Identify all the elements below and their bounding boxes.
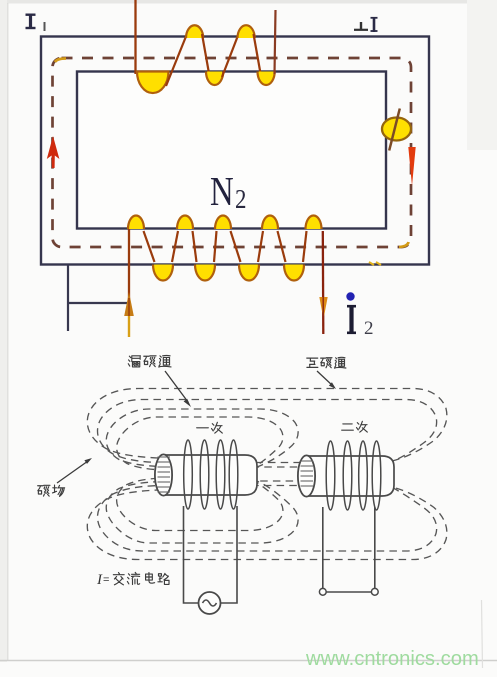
scan bottom edge xyxy=(0,660,497,662)
primary coil turn 4 xyxy=(229,440,238,509)
pointer arrow for field label xyxy=(57,461,88,483)
winding wire segment xyxy=(258,231,263,262)
primary coil turn 3 xyxy=(216,440,225,509)
secondary winding right wire xyxy=(322,231,325,334)
label primary (yi ci) xyxy=(197,422,223,433)
flux line: mutual flux outer, bottom half xyxy=(87,487,447,560)
primary coil turn 2 xyxy=(200,440,209,509)
primary winding lower loop 1 xyxy=(206,72,223,86)
flux line: mutual flux inner, top half xyxy=(98,400,437,464)
flux line: leakage flux outer, bottom half xyxy=(106,480,298,543)
secondary coil turn 4 xyxy=(372,441,381,510)
secondary winding upper loop 2 xyxy=(177,216,193,230)
wire xyxy=(222,29,241,77)
flux arrow up, left limb xyxy=(47,136,60,168)
label secondary (er ci) xyxy=(342,421,368,432)
winding wire segment xyxy=(214,231,217,262)
transformer core outer rectangle xyxy=(41,37,429,265)
svg-text:N: N xyxy=(210,170,234,215)
secondary winding lower loop 3 xyxy=(239,265,259,281)
secondary coil turn 2 xyxy=(343,441,352,510)
svg-text:www.cntronics.com: www.cntronics.com xyxy=(305,648,479,670)
svg-text:2: 2 xyxy=(364,318,374,339)
partial glyph I (top left) xyxy=(26,14,36,29)
yellow flux dash at top-left corner xyxy=(55,59,66,63)
scan right edge xyxy=(482,600,483,668)
winding wire segment xyxy=(144,231,155,262)
partial tick (top left) xyxy=(44,22,46,31)
AC source xyxy=(199,592,221,614)
label I2 with dot xyxy=(346,292,354,300)
flux line: leakage flux inner, bottom half xyxy=(117,478,283,531)
primary coil left end (ellipse) xyxy=(155,454,172,495)
external circuit lines (bottom left) xyxy=(67,265,130,332)
winding wire segment xyxy=(172,231,178,262)
yellow smudge on bottom line xyxy=(369,262,381,265)
hatch inside secondary coil mouth xyxy=(301,461,314,486)
flux line: mutual flux outer, axial segment xyxy=(200,462,350,464)
wire xyxy=(166,29,189,86)
current arrow down (secondary) xyxy=(319,297,327,319)
secondary terminal right xyxy=(371,588,378,595)
secondary terminal left xyxy=(319,588,326,595)
flux line: mutual flux inner, axial segment xyxy=(200,480,350,482)
wire xyxy=(202,34,210,79)
yellow flux dash at bottom-right corner xyxy=(399,242,409,247)
secondary winding left wire xyxy=(128,229,130,303)
secondary coil turn 1 xyxy=(326,441,335,510)
wire to terminal xyxy=(275,10,276,74)
secondary circuit wires xyxy=(323,507,375,592)
label AC circuit (jiao liu dian lu) xyxy=(113,572,169,584)
flux line: mutual flux inner, bottom half xyxy=(98,485,437,551)
label leakage flux (lou ci tong) xyxy=(128,355,171,367)
svg-text:2: 2 xyxy=(235,185,246,214)
secondary coil left end (ellipse) xyxy=(298,455,315,496)
primary winding upper loop 2 xyxy=(238,25,255,38)
scan top edge xyxy=(0,0,497,4)
primary coil body (cylinder) xyxy=(163,455,257,495)
primary winding upper loop 1 xyxy=(186,25,203,38)
primary winding wire from top xyxy=(134,0,136,74)
winding wire segment xyxy=(278,231,286,262)
secondary winding lower loop 1 xyxy=(153,265,173,281)
secondary coil body (cylinder) xyxy=(306,456,394,496)
svg-text:I: I xyxy=(96,572,103,588)
secondary winding lower loop 4 xyxy=(284,265,304,281)
hatch inside primary coil mouth xyxy=(158,457,171,492)
flux line: mutual flux outer, axial segment xyxy=(200,485,350,487)
winding wire segment xyxy=(303,231,307,262)
flux line: mutual flux outer, top half xyxy=(87,389,447,462)
pointer arrow for leakage-flux label xyxy=(165,371,188,402)
flux arrow down, right limb xyxy=(408,147,415,186)
label field (ci chang) xyxy=(38,485,65,496)
flux path dashed loop (red) xyxy=(53,58,412,247)
secondary winding upper loop 4 xyxy=(262,216,278,230)
secondary winding upper loop 3 xyxy=(215,216,231,230)
partial glyph T-bar (top right) xyxy=(354,22,368,30)
primary coil turn 1 xyxy=(184,440,193,509)
current arrow up (bottom left) xyxy=(128,305,130,337)
primary winding big loop xyxy=(137,72,169,94)
flux symbol PHI (yellow ellipse) xyxy=(382,118,411,141)
svg-text:=: = xyxy=(103,574,109,586)
primary winding lower loop 2 xyxy=(258,72,275,86)
secondary winding upper loop 5 xyxy=(306,216,322,230)
secondary coil turn 3 xyxy=(359,441,368,510)
wire xyxy=(254,34,262,79)
pointer arrow for mutual-flux label xyxy=(317,371,333,386)
scan left edge xyxy=(0,0,7,662)
label mutual flux (hu ci tong) xyxy=(307,357,346,368)
winding wire segment xyxy=(231,231,241,262)
transformer core inner rectangle xyxy=(77,72,386,229)
winding wire segment xyxy=(193,231,197,262)
partial glyph I (top right) xyxy=(371,17,378,32)
flux line: leakage flux inner, top half xyxy=(117,417,283,470)
flux line: leakage flux outer, top half xyxy=(106,409,298,468)
primary circuit wires xyxy=(184,506,238,603)
flux line: mutual flux inner, axial segment xyxy=(200,466,350,468)
secondary winding upper loop 1 xyxy=(128,216,144,230)
secondary winding lower loop 2 xyxy=(195,265,215,281)
